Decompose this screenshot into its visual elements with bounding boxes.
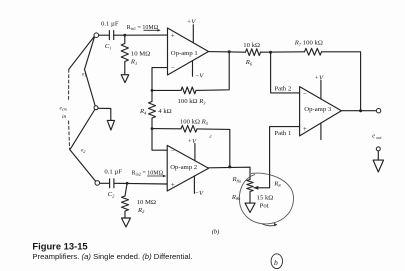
arrow under Rin2 bbox=[147, 175, 166, 177]
wire feedback 2 right to op-amp 2 output bbox=[197, 129, 230, 167]
ground (below pot) bbox=[245, 203, 255, 212]
svg-text:+: + bbox=[303, 125, 307, 133]
op-amp 3 +V stem bbox=[320, 80, 322, 99]
svg-text:R6: R6 bbox=[245, 59, 253, 66]
svg-text:R4: R4 bbox=[139, 108, 147, 115]
svg-text:−: − bbox=[171, 64, 175, 72]
resistor R3 bbox=[181, 87, 196, 94]
wire twisted pair segment e2 top bbox=[70, 110, 95, 150]
capacitor C2 bbox=[110, 179, 114, 188]
node output ground terminal bbox=[376, 147, 380, 151]
junction dot op-amp2 output bbox=[228, 165, 231, 168]
wire top input to C1 bbox=[99, 34, 109, 36]
svg-text:10 MΩ: 10 MΩ bbox=[131, 51, 150, 58]
svg-text:0.1 µF: 0.1 µF bbox=[101, 21, 119, 28]
wire op-amp 1 output bbox=[209, 51, 246, 54]
wire C1 to op-amp 1 + input bbox=[114, 34, 168, 36]
resistor R1 bbox=[121, 35, 128, 74]
wire op-amp 3 output bbox=[341, 110, 376, 112]
wire pot wiper bbox=[254, 187, 270, 189]
svg-text:R2: R2 bbox=[137, 207, 145, 214]
wire path 1 branch bbox=[270, 127, 300, 188]
junction dot op-amp1 output bbox=[228, 50, 231, 53]
svg-text:Figure 13-15: Figure 13-15 bbox=[32, 241, 87, 252]
svg-text:R7 100 kΩ: R7 100 kΩ bbox=[294, 40, 323, 47]
svg-text:−V: −V bbox=[195, 73, 205, 80]
svg-text:−: − bbox=[171, 147, 175, 155]
svg-text:100 kΩ R3: 100 kΩ R3 bbox=[178, 98, 207, 105]
wire bottom input to C2 bbox=[100, 182, 110, 184]
annotation ellipse around pot bbox=[239, 173, 293, 226]
capacitor C1 bbox=[109, 31, 113, 40]
svg-text:+: + bbox=[171, 32, 175, 40]
svg-text:R1: R1 bbox=[130, 59, 137, 66]
svg-text:e out: e out bbox=[372, 134, 382, 140]
svg-text:+V: +V bbox=[188, 138, 198, 145]
wire feedback left bbox=[152, 89, 181, 91]
svg-text:Path 2: Path 2 bbox=[274, 86, 291, 93]
annotation tail arrow bbox=[262, 224, 277, 226]
op-amp 1 -V stem bbox=[192, 61, 194, 77]
wire shield ground tap bbox=[98, 108, 111, 120]
junction dot R6 right bbox=[269, 51, 272, 54]
svg-text:+: + bbox=[171, 181, 175, 189]
op-amp U1 bbox=[168, 28, 209, 75]
svg-text:Preamplifiers. (a) Single ende: Preamplifiers. (a) Single ended. (b) Dif… bbox=[32, 252, 192, 261]
svg-text:100 kΩ R5: 100 kΩ R5 bbox=[180, 119, 209, 126]
ground (below R1) bbox=[121, 75, 129, 83]
resistor R8 pot bbox=[247, 180, 253, 204]
svg-text:+V: +V bbox=[315, 74, 325, 81]
circled b annotation bbox=[271, 254, 282, 269]
svg-text:Op-amp 3: Op-amp 3 bbox=[304, 106, 332, 113]
resistor R2 bbox=[122, 183, 129, 218]
svg-text:C2: C2 bbox=[108, 191, 115, 198]
op-amp 2 +V stem bbox=[194, 144, 196, 161]
svg-text:Op-amp 2: Op-amp 2 bbox=[170, 164, 197, 171]
wire path 2 branch bbox=[271, 52, 300, 93]
shield dashed line bbox=[68, 69, 70, 101]
wire R6 to R7 bbox=[261, 51, 305, 53]
junction dot R3/R4 bbox=[151, 89, 154, 92]
node input terminal bottom bbox=[95, 181, 100, 186]
resistor R6 bbox=[246, 49, 261, 56]
svg-text:C1: C1 bbox=[105, 43, 112, 50]
ground (shield) bbox=[107, 120, 114, 130]
resistor R7 bbox=[305, 48, 322, 55]
wire output terminal 2 stem bbox=[377, 151, 379, 160]
resistor R5 bbox=[181, 125, 197, 132]
wire R7 to feedback corner bbox=[322, 52, 361, 111]
svg-text:R8a: R8a bbox=[232, 176, 242, 183]
wire feedback right to op-amp 1 output bbox=[196, 52, 229, 91]
arrow under Rin1 bbox=[144, 29, 167, 177]
pot wiper arrowhead bbox=[254, 186, 259, 190]
junction dot op-amp3 output bbox=[359, 109, 362, 112]
junction dot C1/R1 bbox=[123, 34, 126, 37]
wire twisted pair segment e2 bottom bbox=[70, 150, 96, 182]
svg-text:Path 1: Path 1 bbox=[274, 130, 291, 137]
svg-text:10 MΩ: 10 MΩ bbox=[137, 199, 156, 206]
svg-text:e1: e1 bbox=[82, 71, 86, 77]
ground (output) bbox=[373, 160, 383, 172]
wire op-amp 1 inverting input bbox=[152, 68, 168, 91]
op-amp 3 -V stem bbox=[320, 123, 322, 140]
svg-text:−: − bbox=[303, 89, 307, 97]
wire op-amp 2 output bbox=[209, 167, 250, 179]
wire op-amp 2 inverting input bbox=[152, 129, 167, 151]
op-amp U2 bbox=[167, 145, 208, 191]
op-amp polarity marks bbox=[171, 32, 307, 189]
svg-text:Pot: Pot bbox=[260, 203, 269, 210]
svg-text:10 kΩ: 10 kΩ bbox=[243, 42, 260, 49]
junction dot R4/R5 bbox=[151, 127, 154, 130]
junction dot C2/R2 bbox=[126, 182, 129, 185]
op-amp U3 bbox=[300, 87, 342, 136]
svg-text:e2: e2 bbox=[81, 148, 85, 154]
svg-text:ecm: ecm bbox=[60, 106, 67, 112]
op-amp 1 +V stem bbox=[192, 25, 194, 43]
node shield center terminal bbox=[94, 106, 98, 110]
svg-text:0.1 µF: 0.1 µF bbox=[104, 168, 122, 175]
svg-text:(b): (b) bbox=[212, 229, 219, 236]
svg-text:+V: +V bbox=[187, 19, 197, 26]
node output terminal bbox=[376, 109, 380, 113]
wire feedback 2 left bbox=[152, 128, 181, 130]
op-amp 2 -V stem bbox=[193, 176, 195, 193]
wire twisted pair segment e1 top bbox=[85, 37, 95, 70]
svg-text:c: c bbox=[210, 134, 213, 140]
wire twisted pair segment e1 bottom bbox=[85, 69, 96, 106]
resistor R4 bbox=[149, 90, 156, 128]
svg-text:−V: −V bbox=[195, 190, 205, 197]
svg-text:15 kΩ: 15 kΩ bbox=[257, 195, 274, 202]
svg-text:Op-amp 1: Op-amp 1 bbox=[171, 50, 198, 57]
svg-text:4 kΩ: 4 kΩ bbox=[158, 108, 171, 115]
ground (below R2) bbox=[122, 218, 131, 227]
wire shield top bbox=[69, 36, 95, 69]
svg-text:in: in bbox=[62, 114, 67, 120]
svg-text:b: b bbox=[274, 258, 278, 267]
svg-text:R8: R8 bbox=[273, 181, 281, 188]
wire C2 to op-amp 2 + input bbox=[114, 182, 167, 185]
node input terminal top bbox=[94, 33, 99, 38]
